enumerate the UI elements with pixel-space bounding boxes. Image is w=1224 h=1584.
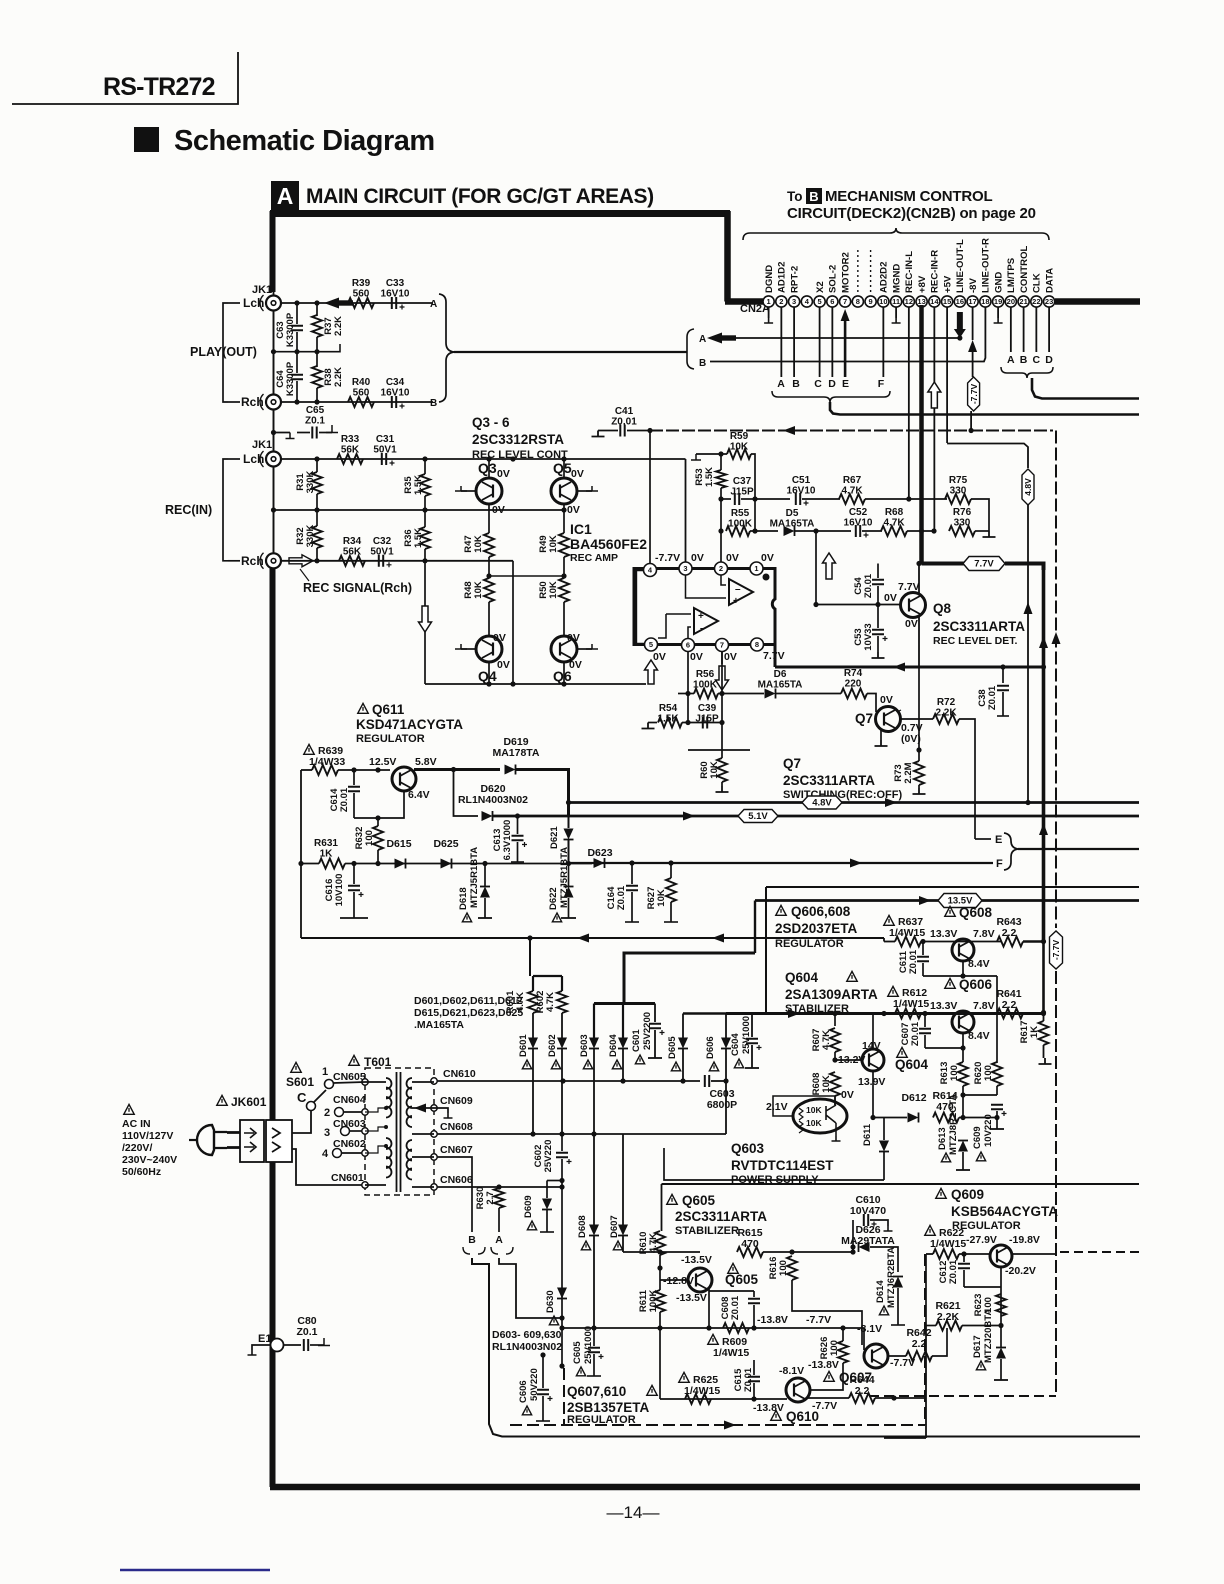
wire REC Rch to op-amp B input rail bbox=[512, 561, 514, 684]
svg-text:R34: R34 bbox=[343, 536, 362, 547]
ground at E1 bbox=[252, 1345, 271, 1350]
ground at CN609 bbox=[434, 1108, 448, 1113]
wire pin6 to node D bbox=[831, 307, 833, 377]
border thick left vertical bar (upper) bbox=[270, 211, 276, 292]
svg-text:D5: D5 bbox=[786, 508, 799, 519]
CN2A pin 20 bbox=[1005, 296, 1016, 307]
IC1 pin 1 bbox=[750, 562, 763, 575]
border step down to CN2A bus bbox=[724, 211, 731, 302]
svg-text:50/60Hz: 50/60Hz bbox=[122, 1166, 161, 1178]
CN2A pin 7 bbox=[840, 296, 851, 307]
wire PLAY mid rail bbox=[274, 351, 318, 353]
svg-text:5: 5 bbox=[818, 297, 822, 306]
diode D620 bbox=[482, 811, 493, 821]
svg-text:-13.8V: -13.8V bbox=[757, 1314, 788, 1326]
svg-text:13: 13 bbox=[917, 297, 925, 306]
wire F-net line (D623 row) bbox=[569, 862, 994, 864]
op-amp B input wires bbox=[666, 613, 691, 615]
svg-text:16: 16 bbox=[956, 297, 964, 306]
svg-text:LINE-OUT-L: LINE-OUT-L bbox=[955, 239, 966, 293]
svg-text:Z0.1: Z0.1 bbox=[305, 416, 325, 427]
svg-text:D605: D605 bbox=[667, 1036, 678, 1059]
svg-text:7: 7 bbox=[720, 641, 724, 650]
svg-text:230V~240V: 230V~240V bbox=[122, 1154, 177, 1166]
hollow down arrow on R36 column bbox=[419, 606, 432, 632]
wire E/F combined to right page edge bbox=[1018, 848, 1139, 850]
svg-text:R39: R39 bbox=[352, 278, 371, 289]
CN2A pin 1 bbox=[763, 296, 774, 307]
svg-text:+5V: +5V bbox=[942, 275, 953, 293]
capacitor C605 25V1000 bbox=[576, 1367, 585, 1376]
svg-text:7.8V: 7.8V bbox=[973, 928, 995, 940]
wire line at y750 to left bbox=[688, 749, 750, 751]
ground at CN2A pin1 bbox=[768, 307, 770, 318]
wire R611 column to base row bbox=[659, 1328, 661, 1399]
svg-text:4.8V: 4.8V bbox=[812, 798, 832, 809]
wire 5.1V rail bbox=[493, 815, 1139, 818]
svg-text:STABILIZER: STABILIZER bbox=[675, 1225, 739, 1237]
wire pin7 to node E with solid up arrow bbox=[844, 316, 847, 377]
svg-text:2SC3311ARTA: 2SC3311ARTA bbox=[933, 619, 1025, 634]
inlet socket on border bbox=[266, 1120, 292, 1162]
svg-text:D601: D601 bbox=[518, 1034, 529, 1057]
svg-text:2SC3311ARTA: 2SC3311ARTA bbox=[675, 1209, 767, 1224]
svg-text:C31: C31 bbox=[376, 434, 395, 445]
CN2A pin 4 bbox=[801, 296, 812, 307]
svg-text:MTZJ20BTA: MTZJ20BTA bbox=[983, 1309, 994, 1363]
connector JK601 bbox=[217, 1095, 227, 1105]
wire raw supply into R637 bbox=[883, 938, 885, 942]
svg-text:D: D bbox=[828, 378, 836, 390]
svg-text:2SB1357ETA: 2SB1357ETA bbox=[567, 1400, 650, 1415]
svg-text:KSD471ACYGTA: KSD471ACYGTA bbox=[356, 717, 463, 732]
svg-text:9: 9 bbox=[869, 297, 873, 306]
svg-text:C39: C39 bbox=[698, 703, 717, 714]
svg-text:To: To bbox=[787, 189, 803, 204]
svg-text:Z0.01: Z0.01 bbox=[987, 685, 998, 710]
svg-text:100K: 100K bbox=[728, 519, 753, 530]
wire D601 column down past CN608 bbox=[593, 1134, 595, 1225]
svg-text:B: B bbox=[430, 398, 437, 409]
transistor Q6 bbox=[551, 636, 577, 662]
svg-text:D615: D615 bbox=[386, 838, 411, 850]
svg-text:10K: 10K bbox=[806, 1105, 822, 1115]
arrow marker on secondary bbox=[414, 1104, 426, 1113]
svg-text:C32: C32 bbox=[373, 536, 392, 547]
svg-text:Q3 - 6: Q3 - 6 bbox=[472, 415, 510, 430]
svg-text:1: 1 bbox=[754, 564, 758, 573]
svg-text:A: A bbox=[277, 183, 294, 209]
diode D608 bbox=[581, 1241, 590, 1250]
wire R59 right column bbox=[754, 499, 756, 531]
svg-text:6: 6 bbox=[686, 641, 690, 650]
dash-dot inner box left edge bbox=[563, 1368, 565, 1425]
op-amp A triangle bbox=[729, 579, 753, 605]
capacitor C604 25V1000 bbox=[734, 1059, 743, 1068]
wire node A line with big left arrow (from pin16) bbox=[712, 337, 960, 339]
ground at Q5 bbox=[577, 490, 593, 492]
svg-text:0V: 0V bbox=[497, 468, 510, 480]
svg-text:D630: D630 bbox=[545, 1290, 556, 1313]
svg-text:Q610: Q610 bbox=[786, 1409, 819, 1424]
svg-text:Q604: Q604 bbox=[785, 970, 819, 985]
svg-text:REGULATOR: REGULATOR bbox=[356, 733, 425, 745]
svg-text:C65: C65 bbox=[306, 405, 325, 416]
svg-text:Q605: Q605 bbox=[725, 1272, 759, 1287]
svg-text:REC LEVEL DET.: REC LEVEL DET. bbox=[933, 635, 1017, 647]
capacitor C606 50V220 bbox=[522, 1406, 531, 1415]
svg-text:S601: S601 bbox=[286, 1075, 314, 1089]
svg-text:C41: C41 bbox=[615, 406, 634, 417]
svg-text:D623: D623 bbox=[587, 847, 612, 859]
diode D603 bbox=[583, 1060, 592, 1069]
wire pin14 REC-IN-R down with hollow arrow bbox=[933, 307, 935, 382]
svg-text:MOTOR2: MOTOR2 bbox=[840, 252, 851, 293]
diode D606 bbox=[709, 1062, 718, 1071]
svg-text:C33: C33 bbox=[386, 278, 405, 289]
wires pins 20-23 down to ABCD bbox=[1010, 307, 1012, 352]
wire Q611 base down bbox=[354, 791, 404, 818]
wire CN608 line bbox=[437, 1133, 726, 1135]
svg-text:0V: 0V bbox=[567, 504, 580, 516]
svg-text:C51: C51 bbox=[792, 475, 811, 486]
svg-text:17: 17 bbox=[968, 297, 976, 306]
wire +5V feed to 4.8V drop bbox=[947, 444, 1028, 469]
svg-text:R68: R68 bbox=[885, 507, 904, 518]
label T601 bbox=[349, 1055, 359, 1065]
svg-text:Q7: Q7 bbox=[783, 756, 801, 771]
svg-text:0V: 0V bbox=[653, 651, 666, 663]
svg-text:13.9V: 13.9V bbox=[858, 1076, 885, 1088]
svg-text:0V: 0V bbox=[761, 552, 774, 564]
wire Q8 emitter down bbox=[918, 617, 920, 667]
connector CN2A top brace bbox=[743, 228, 1049, 240]
wire 4.8V vertical with up arrow bbox=[1027, 505, 1029, 803]
svg-text:0V: 0V bbox=[492, 504, 505, 516]
wire pin17 -8V down with arrow and -7.7V hex bbox=[972, 307, 974, 340]
svg-text:C: C bbox=[297, 1090, 307, 1105]
wire Q7 collector to R72 bbox=[897, 710, 901, 712]
ground at Q6 bbox=[577, 648, 593, 650]
svg-text:–: – bbox=[735, 584, 741, 595]
ground at Q7 emitter bbox=[880, 730, 882, 740]
diode D601 bbox=[522, 1060, 531, 1069]
IC1 polarity dot bbox=[763, 574, 770, 581]
svg-text:Rch: Rch bbox=[241, 395, 264, 409]
wire ABCD bus to right page edge bbox=[1032, 378, 1139, 399]
svg-text:R67: R67 bbox=[843, 475, 862, 486]
svg-text:4.7K: 4.7K bbox=[841, 486, 863, 497]
svg-text:CN605: CN605 bbox=[333, 1071, 366, 1083]
wire 7.7V thick rail with hex bbox=[922, 562, 967, 566]
svg-text:C604: C604 bbox=[730, 1033, 741, 1056]
transformer secondary winding bbox=[407, 1078, 412, 1127]
svg-text:D602: D602 bbox=[547, 1034, 558, 1057]
svg-text:+: + bbox=[733, 596, 739, 607]
svg-text:21: 21 bbox=[1019, 297, 1027, 306]
svg-text:13.3V: 13.3V bbox=[930, 928, 957, 940]
svg-text:8: 8 bbox=[856, 297, 860, 306]
op-amp A input wires bbox=[721, 575, 726, 585]
svg-text:1/4W15: 1/4W15 bbox=[713, 1347, 749, 1359]
bus thick wire right of CN2A pin23 bbox=[1055, 298, 1140, 305]
svg-text:1.5K: 1.5K bbox=[704, 467, 715, 487]
svg-text:1/4W15: 1/4W15 bbox=[893, 998, 929, 1010]
svg-text:6.3V1000: 6.3V1000 bbox=[502, 820, 513, 861]
hollow arrow REC SIGNAL pointer bbox=[289, 555, 313, 567]
svg-text:0V: 0V bbox=[493, 632, 506, 644]
svg-text:REC-IN-L: REC-IN-L bbox=[904, 251, 915, 293]
wire REC Lch line into IC1 pin3 bbox=[281, 458, 686, 460]
transistor Q608 bbox=[945, 906, 955, 916]
zener D617 MTZJ20BTA bbox=[976, 1361, 985, 1370]
wire Q608 emitter node bbox=[962, 961, 964, 976]
svg-text:D621: D621 bbox=[549, 826, 560, 849]
wire REC mid rail bbox=[274, 509, 565, 511]
svg-text:D: D bbox=[1045, 354, 1053, 366]
svg-text:0V: 0V bbox=[567, 632, 580, 644]
wire Q605 emitter down bbox=[708, 1289, 710, 1328]
wire PLAY Lch line bbox=[281, 302, 433, 304]
svg-text:R40: R40 bbox=[352, 377, 371, 388]
svg-text:Z0.01: Z0.01 bbox=[743, 1367, 754, 1392]
svg-text:7.7V: 7.7V bbox=[974, 559, 994, 570]
transistor Q7 bbox=[876, 707, 901, 732]
diode D605 bbox=[671, 1062, 680, 1071]
svg-text:+: + bbox=[698, 611, 704, 622]
svg-text:Q603: Q603 bbox=[731, 1141, 765, 1156]
svg-text:C605: C605 bbox=[572, 1341, 583, 1364]
svg-text:Lch: Lch bbox=[243, 296, 264, 310]
wire jack ground column bbox=[273, 310, 275, 395]
wire C41 node down to IC1 pin4 bbox=[649, 431, 651, 564]
wire pin15 +5V down bbox=[946, 307, 948, 443]
ground at Q4 bbox=[461, 648, 477, 650]
svg-text:/220V/: /220V/ bbox=[122, 1142, 152, 1154]
switch S601 bbox=[291, 1062, 301, 1072]
wire rectifier feed bracket R601/R602 bbox=[529, 955, 531, 976]
svg-text:MA165TA: MA165TA bbox=[758, 680, 803, 691]
svg-text:R74: R74 bbox=[844, 668, 863, 679]
svg-text:11: 11 bbox=[892, 297, 900, 306]
svg-text:2: 2 bbox=[324, 1107, 330, 1119]
wire -13.5V rail top of stabilizer block bbox=[662, 1183, 1140, 1185]
svg-text:2SC3311ARTA: 2SC3311ARTA bbox=[783, 773, 875, 788]
CN2A pin 6 bbox=[827, 296, 838, 307]
svg-text:REGULATOR: REGULATOR bbox=[775, 938, 844, 950]
svg-text:2SC3312RSTA: 2SC3312RSTA bbox=[472, 432, 564, 447]
svg-text:MTZJ6R2BTA: MTZJ6R2BTA bbox=[886, 1247, 897, 1308]
svg-text:D609: D609 bbox=[523, 1195, 534, 1218]
svg-text:CN608: CN608 bbox=[440, 1121, 473, 1133]
svg-text:Q608: Q608 bbox=[959, 905, 993, 920]
wire Q607 base row -13.8V bbox=[562, 1327, 864, 1329]
svg-text:5: 5 bbox=[649, 640, 653, 649]
svg-text:REC SIGNAL(Rch): REC SIGNAL(Rch) bbox=[303, 581, 412, 595]
wire bracket D605/D606 from 7.7V rail feed bbox=[683, 1012, 726, 1014]
diode D609 stub bbox=[527, 1221, 536, 1230]
svg-text:CN606: CN606 bbox=[440, 1174, 473, 1186]
svg-text:R76: R76 bbox=[953, 507, 972, 518]
svg-text:CIRCUIT(DECK2)(CN2B) on page 2: CIRCUIT(DECK2)(CN2B) on page 20 bbox=[787, 205, 1036, 222]
op-amp B triangle bbox=[694, 608, 718, 634]
border thick left vertical bar (lower) bbox=[270, 568, 276, 1487]
svg-text:Z0.01: Z0.01 bbox=[863, 573, 874, 598]
wires secondary taps bbox=[412, 1081, 434, 1083]
svg-text:MA178TA: MA178TA bbox=[492, 747, 539, 759]
svg-text:D603- 609,630: D603- 609,630 bbox=[492, 1329, 562, 1341]
wire Q3 Q5 top connects bbox=[488, 459, 490, 478]
svg-text:CN610: CN610 bbox=[443, 1068, 476, 1080]
svg-text:B: B bbox=[1020, 354, 1028, 366]
section label A MAIN CIRCUIT (FOR GC/GT AREAS) bbox=[271, 181, 299, 210]
resistor R637 1/4W15 bbox=[884, 915, 894, 925]
wire B down and to bottom-right rail bbox=[472, 1258, 1140, 1437]
svg-text:Q4: Q4 bbox=[478, 668, 497, 684]
svg-text:D625: D625 bbox=[433, 838, 458, 850]
svg-text:SOL-2: SOL-2 bbox=[828, 265, 839, 293]
wire feed down to rectifier bracket bbox=[529, 938, 531, 955]
wire pin3 to node B bbox=[793, 307, 795, 377]
svg-text:F: F bbox=[996, 858, 1003, 870]
svg-text:R75: R75 bbox=[949, 475, 968, 486]
wire Q603 base from R608 bbox=[773, 1096, 835, 1116]
diode D607 bbox=[613, 1241, 622, 1250]
CN2A pin 11 bbox=[891, 296, 902, 307]
svg-text:2.2K: 2.2K bbox=[333, 367, 344, 387]
svg-text:JK601: JK601 bbox=[231, 1095, 267, 1109]
svg-text:R56: R56 bbox=[696, 669, 715, 680]
stub from mid rail bbox=[317, 344, 340, 352]
border thick bottom horizontal bar bbox=[270, 1484, 1140, 1491]
svg-text:50V220: 50V220 bbox=[529, 1368, 540, 1401]
svg-text:CN609: CN609 bbox=[440, 1095, 473, 1107]
ground at Q3 bbox=[461, 490, 477, 492]
svg-text:10V33: 10V33 bbox=[863, 623, 874, 650]
wire PLAY Rch line bbox=[281, 401, 433, 403]
wire IC1 pin4-pin5 left loop bbox=[636, 570, 644, 644]
svg-text:R33: R33 bbox=[341, 434, 360, 445]
svg-text:2: 2 bbox=[779, 297, 783, 306]
brace joining E/F to page edge bbox=[1004, 833, 1018, 870]
resistor R622 1/4W15 bbox=[925, 1225, 935, 1235]
svg-text:6.4V: 6.4V bbox=[408, 789, 430, 801]
svg-text:MA165TA: MA165TA bbox=[770, 519, 815, 530]
svg-text:6800P: 6800P bbox=[707, 1099, 737, 1111]
svg-text:3: 3 bbox=[792, 297, 796, 306]
svg-text:-8.1V: -8.1V bbox=[779, 1365, 804, 1377]
label Q609 KSB564ACYGTA REGULATOR bbox=[936, 1188, 946, 1198]
CN2A pin 23 bbox=[1044, 296, 1055, 307]
svg-text:CONTROL: CONTROL bbox=[1019, 245, 1030, 293]
svg-text:8.4V: 8.4V bbox=[968, 958, 990, 970]
svg-text:10K: 10K bbox=[473, 535, 484, 553]
svg-text:MAIN CIRCUIT (FOR GC/GT AREA: MAIN CIRCUIT (FOR GC/GT AREAS) bbox=[306, 185, 654, 208]
CN2A pin 12 bbox=[903, 296, 914, 307]
svg-text:D603: D603 bbox=[579, 1034, 590, 1057]
braces under B A bbox=[463, 1247, 513, 1254]
ground at R75/R76 node bbox=[983, 531, 996, 537]
op-amp U IC1 body bbox=[634, 569, 775, 645]
svg-text:Z0.01: Z0.01 bbox=[616, 885, 627, 910]
wire Q8 base line bbox=[816, 604, 901, 606]
svg-text:A: A bbox=[495, 1234, 503, 1246]
svg-text:-8V: -8V bbox=[968, 277, 979, 293]
svg-text:–: – bbox=[700, 623, 706, 634]
resistor R625 1/4W15 bbox=[679, 1372, 689, 1382]
CN2A pin 21 bbox=[1018, 296, 1029, 307]
svg-text:R72: R72 bbox=[937, 697, 956, 708]
svg-text:0V: 0V bbox=[724, 651, 737, 663]
svg-text:1/4W15: 1/4W15 bbox=[684, 1385, 720, 1397]
svg-text:REC AMP: REC AMP bbox=[570, 552, 618, 564]
wire thick 7.7V drop to R617 bbox=[1042, 942, 1045, 1013]
svg-text:4: 4 bbox=[322, 1148, 329, 1160]
wire main 13.3V rail thick bbox=[726, 1012, 1044, 1015]
wire pin13 +8V thick down bbox=[919, 305, 924, 564]
svg-text:JK1: JK1 bbox=[252, 284, 272, 296]
svg-text:RL1N4003N02: RL1N4003N02 bbox=[492, 1341, 562, 1353]
svg-text:110V/127V: 110V/127V bbox=[122, 1130, 173, 1142]
svg-text:-13.8V: -13.8V bbox=[753, 1402, 784, 1414]
svg-text:13.3V: 13.3V bbox=[930, 1000, 957, 1012]
svg-text:D617: D617 bbox=[972, 1335, 983, 1358]
svg-text:10K: 10K bbox=[548, 535, 559, 553]
diode D604 bbox=[612, 1060, 621, 1069]
transistor Q8 bbox=[901, 593, 926, 618]
CN2A pin 19 bbox=[993, 296, 1004, 307]
wire CN610 line bbox=[437, 1080, 700, 1082]
IC1 pin 3 bbox=[679, 562, 692, 575]
svg-text:REC-IN-R: REC-IN-R bbox=[930, 250, 941, 293]
svg-text:Q5: Q5 bbox=[553, 460, 572, 476]
capacitor C609 10V220 bbox=[976, 1152, 985, 1161]
svg-text:A: A bbox=[430, 299, 437, 310]
svg-text:5.8V: 5.8V bbox=[415, 756, 437, 768]
svg-text:7.8V: 7.8V bbox=[973, 1000, 995, 1012]
svg-text:8.4V: 8.4V bbox=[968, 1030, 990, 1042]
svg-text:2SD2037ETA: 2SD2037ETA bbox=[775, 921, 858, 936]
zener D622 MTZJ5R1BTA bbox=[552, 913, 561, 922]
svg-text:Schematic Diagram: Schematic Diagram bbox=[174, 125, 435, 157]
IC1 pin 4 bbox=[644, 564, 657, 577]
wire Q604 collector up bbox=[872, 1014, 874, 1050]
CN2A pin 2 bbox=[776, 296, 787, 307]
wire left supply vertical from R639 bbox=[300, 770, 302, 938]
svg-text:Q606: Q606 bbox=[959, 977, 993, 992]
svg-text:-19.8V: -19.8V bbox=[1009, 1234, 1040, 1246]
svg-text:R55: R55 bbox=[731, 508, 750, 519]
jack JK1 PLAY Rch bbox=[266, 395, 281, 410]
svg-text:-7.7V: -7.7V bbox=[806, 1314, 831, 1326]
svg-text:AD1D2: AD1D2 bbox=[777, 262, 788, 293]
svg-text:22: 22 bbox=[1032, 297, 1040, 306]
svg-text:7.7V: 7.7V bbox=[898, 581, 920, 593]
svg-text:16V10: 16V10 bbox=[787, 486, 816, 497]
svg-text:1/4W15: 1/4W15 bbox=[889, 927, 925, 939]
wire jack column thin link bbox=[273, 292, 275, 568]
resistor R639 1/4W33 bbox=[304, 744, 314, 754]
AC plug symbol bbox=[197, 1125, 214, 1155]
wire R47-R49 mid tie bbox=[489, 575, 564, 577]
svg-text:18: 18 bbox=[981, 297, 989, 306]
svg-text:0V: 0V bbox=[497, 659, 510, 671]
svg-text:14: 14 bbox=[930, 297, 939, 306]
wire -7.7V dashed vertical right side bbox=[1055, 431, 1057, 929]
svg-text:Q7: Q7 bbox=[855, 711, 873, 726]
svg-text:D611: D611 bbox=[862, 1123, 873, 1146]
svg-text:25V1000: 25V1000 bbox=[583, 1326, 594, 1364]
